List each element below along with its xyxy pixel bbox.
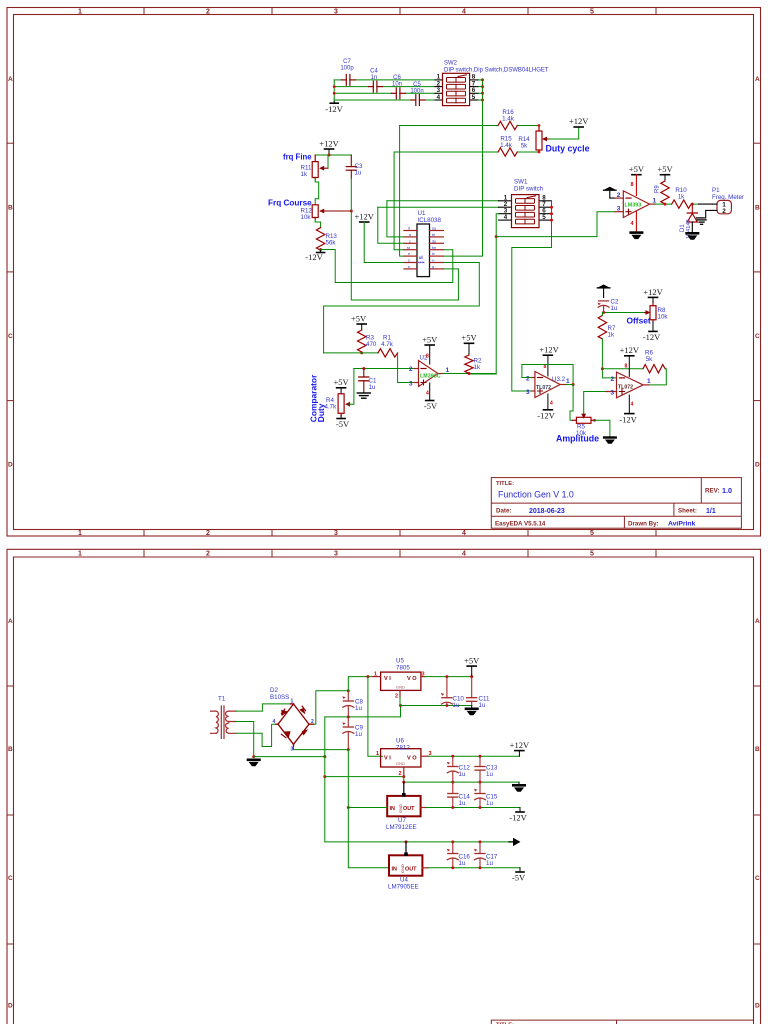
ground (C1) (357, 393, 370, 398)
resistor R1 4.7k (378, 349, 398, 357)
wire SW2 right bus down to U1 pin (443, 80, 482, 256)
svg-text:Function Gen V 1.0: Function Gen V 1.0 (498, 490, 574, 500)
svg-text:GND: GND (396, 761, 405, 766)
svg-text:B: B (755, 204, 760, 211)
svg-text:1u: 1u (479, 702, 486, 709)
svg-text:tri: tri (432, 233, 435, 237)
svg-text:7812: 7812 (396, 744, 410, 751)
svg-text:1.4k: 1.4k (502, 116, 515, 123)
sheet2 row ticks (7, 686, 761, 944)
svg-text:1u: 1u (459, 771, 466, 778)
svg-text:3: 3 (526, 389, 530, 396)
svg-text:C: C (8, 333, 13, 340)
capacitor C16 1u (polarized) (447, 842, 471, 868)
resistor R3 470 (358, 330, 366, 353)
power flag +12V (frq) (319, 139, 339, 156)
sheet2 outer border (7, 549, 761, 1024)
svg-text:2018-06-23: 2018-06-23 (529, 508, 565, 515)
svg-text:9: 9 (408, 227, 410, 231)
regulator U5 7805 (373, 658, 425, 700)
svg-text:Duty cycle: Duty cycle (546, 143, 590, 153)
capacitor C2 1u (polarized) (598, 299, 619, 313)
signal arrow flag (U4 gnd rail) (509, 838, 521, 846)
ground (R5) (603, 436, 617, 443)
power flag +5V (U2 pin8) (422, 335, 438, 365)
svg-text:sq: sq (432, 227, 436, 231)
svg-text:+12V: +12V (643, 287, 663, 297)
capacitor C9 1u (polarized) (342, 717, 363, 750)
svg-text:+5V: +5V (422, 335, 438, 345)
svg-text:1.0: 1.0 (722, 486, 732, 495)
svg-text:V O: V O (407, 756, 417, 762)
wire R5 wiper up to U3.1 pin3 (584, 392, 606, 414)
svg-text:10k: 10k (658, 314, 669, 321)
wire SW1 pin1 to U1 pin2L (387, 200, 499, 202)
wire secondary top to bridge top (236, 704, 291, 711)
svg-text:GND: GND (398, 804, 403, 813)
svg-text:IN: IN (390, 806, 395, 812)
wire R15 row (394, 151, 498, 153)
svg-text:2: 2 (399, 771, 402, 777)
svg-text:-5V: -5V (424, 401, 438, 411)
capacitor C6 10n (392, 88, 406, 99)
wire mid-tap gnd bus to left vertical (254, 756, 325, 758)
wire gnd left vertical (324, 717, 326, 842)
svg-text:1k: 1k (301, 171, 308, 178)
svg-text:1: 1 (653, 198, 657, 205)
svg-text:2: 2 (617, 192, 621, 199)
junction dots SW1 right (550, 206, 553, 222)
svg-text:1u: 1u (355, 705, 362, 712)
wire U3.2 output down to R5 (566, 385, 573, 421)
sheet1 row letters (8, 76, 760, 469)
connector P1 Freq. Meter (703, 187, 744, 218)
wire branch down to U6 VI (368, 677, 383, 757)
wire C2/R7 vertical (602, 313, 603, 316)
wire secondary mid-tap to ground bus (236, 722, 254, 757)
svg-text:ul: ul (419, 255, 423, 260)
wire U3.2 feedback loop (522, 365, 573, 385)
diode D1 1N4148 (680, 204, 697, 239)
sheet1 column ticks top (144, 8, 656, 15)
svg-text:TL072: TL072 (536, 385, 551, 391)
svg-text:e: e (408, 252, 410, 256)
wire C8+ node up to U5 VI (348, 677, 373, 691)
power flag +5V (R4) (334, 377, 350, 394)
ground (P1 pin2) (697, 218, 707, 224)
svg-text:+12V: +12V (354, 212, 374, 222)
wire R15 left corner down to U1 pin4L (394, 152, 404, 250)
svg-text:4.7k: 4.7k (381, 341, 394, 348)
sheet2 inner border (14, 557, 754, 1024)
svg-text:C: C (755, 333, 760, 340)
op-amp U2 LM393C (409, 355, 450, 388)
svg-text:100n: 100n (410, 89, 423, 95)
power flag +12V (sheet2) (510, 740, 530, 756)
svg-text:Date:: Date: (496, 508, 511, 515)
svg-text:****: **** (418, 261, 425, 266)
svg-text:B10SS: B10SS (270, 694, 289, 701)
power flag +12V (U3.1 pin8) (620, 345, 640, 376)
svg-text:8: 8 (625, 364, 628, 370)
wire cap bank row2 (334, 86, 368, 88)
svg-text:1u: 1u (369, 384, 376, 391)
wire R4 wiper up to U2 pin2 net (349, 369, 354, 405)
svg-text:470: 470 (366, 341, 377, 348)
svg-text:3: 3 (334, 550, 338, 557)
power flag -5V (sheet2) (512, 868, 526, 883)
svg-text:1: 1 (78, 550, 82, 557)
svg-text:P1: P1 (712, 187, 720, 194)
svg-text:1: 1 (374, 672, 377, 678)
resistor R15 1.4k (498, 148, 517, 156)
junction dots SW2 right (481, 78, 484, 101)
U1 pins left (404, 231, 417, 269)
svg-text:B: B (8, 746, 13, 753)
svg-text:A: A (755, 618, 760, 625)
svg-text:7805: 7805 (396, 664, 410, 671)
capacitor C4 1n (369, 81, 383, 92)
svg-text:8: 8 (426, 354, 429, 360)
svg-text:4.7k: 4.7k (325, 404, 338, 411)
svg-text:tc: tc (432, 252, 435, 256)
capacitor C15 1u (polarized) (474, 782, 498, 807)
svg-text:1k: 1k (678, 194, 685, 201)
junction dots cap bus (333, 85, 336, 95)
power flag +5V (R2) (461, 333, 477, 356)
ground (mid-tap) (247, 759, 261, 767)
wire R7 bottom to summing node (602, 339, 616, 378)
capacitor C13 1u (475, 756, 498, 782)
svg-text:4: 4 (426, 391, 429, 397)
svg-text:du: du (432, 239, 436, 243)
wire R12 wiper net down (to H2) (351, 211, 458, 300)
svg-text:1: 1 (291, 699, 294, 705)
svg-text:2: 2 (722, 208, 726, 215)
sheet2 title block partial (491, 1020, 753, 1024)
sheet2 row letters (8, 618, 760, 1009)
svg-text:100p: 100p (340, 66, 354, 72)
U1 pins right (430, 231, 444, 269)
svg-text:IN: IN (392, 866, 397, 872)
net label Comparator Duty (rotated) (309, 374, 327, 422)
wire C2 node to R8 wiper (604, 312, 645, 314)
wire R11 bottom to R12 top (315, 179, 319, 205)
svg-text:+5V: +5V (464, 655, 480, 665)
svg-text:1: 1 (446, 367, 450, 374)
wire SW1 right bus down to U3.2 pin3 (512, 201, 552, 391)
capacitor C5 100n (411, 95, 425, 106)
svg-text:1: 1 (376, 751, 379, 757)
svg-text:4: 4 (273, 719, 276, 725)
title block box (491, 478, 741, 529)
sheet2 column ticks top (144, 549, 656, 557)
svg-text:ICL8038: ICL8038 (418, 217, 442, 224)
regulator U4 LM7905EE (388, 842, 428, 891)
svg-text:+5V: +5V (629, 164, 645, 174)
svg-text:EasyEDA V5.5.14: EasyEDA V5.5.14 (495, 520, 546, 527)
wire cap-bank left bus to -12V (333, 80, 335, 102)
svg-text:SW1: SW1 (514, 179, 528, 186)
svg-text:Sheet:: Sheet: (678, 508, 697, 515)
svg-text:4: 4 (462, 8, 466, 15)
svg-text:A: A (8, 618, 13, 625)
wire R1 to U2 pin3 (398, 353, 415, 383)
svg-text:U7: U7 (398, 817, 406, 824)
ground (gnd mid rail) (512, 782, 526, 792)
svg-text:C: C (755, 875, 760, 882)
svg-text:1: 1 (566, 378, 570, 385)
power flag +5V (R3) (351, 314, 367, 331)
svg-text:3: 3 (611, 389, 615, 396)
power flag -12V (R13) (305, 250, 324, 263)
svg-text:V I: V I (384, 756, 391, 762)
svg-text:10k: 10k (301, 214, 312, 221)
svg-text:5: 5 (542, 214, 546, 221)
wire secondary bottom to bridge left (236, 724, 276, 746)
svg-text:LM7905EE: LM7905EE (388, 884, 419, 891)
svg-text:-12V: -12V (537, 410, 555, 420)
wire U2 output to R2 node (443, 373, 496, 375)
wire R5 right to ground (595, 420, 610, 436)
svg-text:Frq Course: Frq Course (268, 199, 312, 208)
svg-text:4: 4 (437, 94, 441, 101)
svg-text:Drawn By:: Drawn By: (628, 520, 659, 527)
resistor R7 1k (598, 316, 606, 339)
capacitor C8 1u (polarized) (342, 691, 363, 717)
svg-text:U4: U4 (400, 877, 408, 884)
power flag -12V (U3.2 pin4) (537, 394, 555, 420)
svg-text:-12V: -12V (509, 813, 527, 823)
svg-text:3: 3 (334, 8, 338, 15)
svg-text:fm: fm (432, 246, 436, 250)
svg-text:+12V: +12V (319, 139, 339, 149)
svg-text:-12V: -12V (325, 104, 343, 114)
capacitor C7 100p (342, 75, 356, 86)
svg-text:1u: 1u (459, 860, 466, 867)
wire +12V rail (428, 755, 519, 757)
wire SW1 pin2 to U1 pin3L (378, 206, 499, 208)
capacitor C1 1u (359, 369, 377, 394)
svg-text:1/1: 1/1 (706, 508, 716, 515)
svg-text:Offset: Offset (627, 315, 651, 325)
svg-text:4: 4 (504, 214, 508, 221)
ground (C11 rail) (465, 706, 479, 716)
svg-text:D: D (8, 462, 13, 469)
svg-text:DIP switch,Dip Switch,DSWB04LH: DIP switch,Dip Switch,DSWB04LHGET (444, 68, 549, 74)
svg-text:1u: 1u (486, 771, 493, 778)
wire R10 to P1 (691, 203, 698, 205)
resistor R6 5k (643, 365, 665, 373)
svg-text:SW2: SW2 (444, 61, 458, 67)
power flag -12V (R8) (643, 322, 661, 342)
wire +5V rail (425, 676, 472, 678)
wire bridge - to C9 bottom rail (294, 747, 349, 750)
svg-text:B: B (755, 746, 760, 753)
op-amp U3.1 TL072 (606, 372, 651, 398)
signal arrow flag (LM393 pin2) (604, 187, 617, 198)
svg-text:+5V: +5V (334, 377, 350, 387)
svg-text:U3.2: U3.2 (552, 376, 566, 383)
svg-text:+5V: +5V (657, 164, 673, 174)
regulator U7 LM7912EE (348, 782, 426, 831)
dip switch SW1 (499, 179, 552, 228)
svg-text:5k: 5k (646, 356, 653, 363)
wire R16 row (400, 125, 498, 127)
wire U5 gnd down to rail (400, 697, 472, 706)
wire R16 left corner down to U1 pin5L (400, 126, 404, 257)
svg-text:LM393C: LM393C (420, 374, 441, 380)
svg-text:GND: GND (396, 684, 405, 689)
power flag -12V (cap bank) (325, 102, 343, 115)
LM393 pin4 to ground (629, 212, 643, 239)
wire -5V rail (428, 867, 520, 869)
svg-text:2: 2 (526, 376, 530, 383)
svg-text:AviPrink: AviPrink (668, 521, 696, 528)
svg-text:st: st (407, 246, 410, 250)
wire R14 wiper to +12V (549, 127, 579, 139)
resistor R13 56k (316, 228, 324, 251)
svg-text:5: 5 (590, 8, 594, 15)
svg-text:1n: 1n (371, 75, 378, 81)
wire gnd top branch to U5 gnd (325, 706, 401, 717)
wire U4 gnd rail (325, 841, 513, 843)
svg-text:DIP switch: DIP switch (514, 186, 544, 193)
power flag -5V (R4) (336, 416, 350, 430)
svg-text:Amplitude: Amplitude (556, 434, 599, 444)
resistor R10 1k (672, 200, 692, 208)
ground (D1) (685, 232, 699, 240)
svg-text:1: 1 (78, 530, 82, 537)
svg-text:1k: 1k (608, 331, 615, 338)
svg-text:frq Fine: frq Fine (283, 153, 312, 162)
wire R13 bottom to H1 to U1 pin4R (321, 250, 453, 283)
sheet1 column numbers bottom (78, 530, 594, 537)
sheet1 outer border (7, 8, 761, 537)
wire R6 right to U3.1 output (649, 369, 667, 385)
svg-text:-12V: -12V (643, 332, 661, 342)
svg-text:C4: C4 (370, 69, 378, 75)
wire R3 node (324, 352, 378, 354)
svg-text:C5: C5 (413, 82, 421, 88)
wire C1/R4 node to U2 pin2 (354, 368, 415, 370)
wire bridge + up to C8/U5 input (314, 691, 349, 725)
svg-text:3: 3 (409, 381, 413, 388)
U1 tiny pin labels (407, 227, 436, 269)
svg-text:C: C (8, 875, 13, 882)
IC U1 ICL8038 body (404, 210, 444, 277)
svg-text:4: 4 (550, 401, 553, 407)
power flag +5V (sheet2) (464, 655, 480, 676)
svg-text:3: 3 (334, 530, 338, 537)
potentiometer R11 1k (301, 155, 329, 179)
sheet1 column numbers top (78, 8, 594, 15)
svg-text:1u: 1u (611, 305, 618, 312)
op-amp U3.2 TL072 (526, 372, 570, 398)
svg-text:-12V: -12V (305, 252, 323, 262)
bridge rectifier D2 B10SS (270, 687, 314, 753)
svg-text:s: s (408, 265, 410, 269)
wire SW1 pin3 down to U2 output net (469, 214, 499, 374)
svg-text:4: 4 (462, 550, 466, 557)
power flag +5V (LM393 pin8) (629, 164, 645, 196)
svg-text:-5V: -5V (336, 419, 350, 429)
wire C3 down to R12 wiper junction (350, 178, 352, 211)
svg-text:5: 5 (590, 530, 594, 537)
capacitor C10 1u (polarized) (441, 677, 465, 709)
svg-text:R9: R9 (655, 185, 661, 193)
signal arrow flag (C2 top) (597, 285, 610, 298)
svg-text:10n: 10n (392, 82, 402, 88)
power flag +12V (duty) (569, 116, 589, 127)
potentiometer R5 10k (573, 414, 596, 438)
op-amp U? LM393 (freq meter driver) (615, 191, 657, 218)
wire neg input bus C9- down to U7/U4 (348, 750, 389, 868)
svg-text:g: g (432, 265, 434, 269)
svg-text:V O: V O (407, 676, 417, 682)
svg-text:LM7912EE: LM7912EE (386, 824, 417, 831)
svg-text:V I: V I (384, 676, 391, 682)
wire R12 wiper to C3 bus (326, 210, 351, 212)
svg-text:1: 1 (78, 8, 82, 15)
svg-text:OUT: OUT (405, 866, 417, 872)
wire cap bank row3 (334, 92, 391, 94)
svg-text:OUT: OUT (403, 806, 415, 812)
svg-text:1: 1 (647, 378, 651, 385)
dip switch SW2 (435, 61, 549, 106)
wire gnd branch to U6/U7 gnd (325, 776, 404, 778)
transformer T1 (211, 706, 237, 738)
svg-text:TL072: TL072 (618, 385, 633, 391)
potentiometer R4 4.7k (325, 394, 351, 416)
svg-text:a: a (409, 233, 411, 237)
svg-text:1u: 1u (459, 800, 466, 807)
power flag +12V (R8) (643, 287, 663, 302)
svg-text:+12V: +12V (569, 116, 589, 126)
resistor R2 1k (465, 355, 473, 374)
svg-text:1k: 1k (474, 364, 481, 371)
wire gnd mid rail (C12/C13 bottoms) (404, 777, 519, 783)
svg-text:+12V: +12V (539, 345, 559, 355)
svg-text:2: 2 (206, 550, 210, 557)
potentiometer R14 5k (518, 124, 549, 153)
sheet2 column numbers (78, 550, 594, 557)
wire U2 output net to LM393 pin3 (496, 212, 615, 237)
svg-text:1u: 1u (355, 170, 362, 177)
svg-text:1u: 1u (453, 702, 460, 709)
svg-text:2: 2 (206, 8, 210, 15)
potentiometer R12 10k (301, 205, 327, 221)
regulator U6 7812 (376, 738, 432, 778)
wire U1 pin6R to H3 to comparator node (324, 263, 480, 353)
svg-text:+5V: +5V (351, 314, 367, 324)
wire +12V rail to R11/C3 (315, 154, 351, 156)
sheet1 inner border (14, 15, 754, 530)
svg-text:D: D (755, 462, 760, 469)
svg-text:5k: 5k (521, 143, 528, 150)
sheet1 row ticks (7, 143, 761, 400)
svg-text:1.4k: 1.4k (500, 142, 513, 149)
svg-text:D: D (755, 1003, 760, 1010)
svg-text:+5V: +5V (461, 333, 477, 343)
svg-text:C6: C6 (393, 75, 401, 81)
wire SW2 pins to bus stubs (479, 80, 483, 100)
wire R11 wiper up to +12V rail (327, 155, 329, 168)
power flag +5V (R9) (657, 164, 673, 181)
power flag -5V (U2 pin4) (424, 383, 438, 411)
wire +12V to U1 pin6L (364, 222, 404, 263)
svg-text:2: 2 (409, 366, 413, 373)
